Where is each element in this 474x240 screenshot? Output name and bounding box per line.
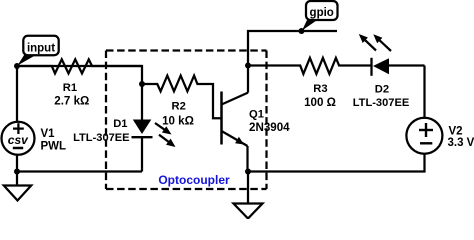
svg-text:2N3904: 2N3904 [249,121,290,134]
svg-text:D1: D1 [113,118,127,130]
svg-text:input: input [27,42,55,54]
resistor R3 [248,58,371,74]
node emitter junction [245,169,251,175]
svg-text:R2: R2 [172,100,186,112]
wire V1 bottom [16,156,18,186]
emission arrow 2 [379,39,392,51]
wire V1 top [16,66,18,122]
svg-text:PWL: PWL [41,141,67,153]
flag input [18,36,59,66]
optocoupler dashed box [106,51,267,190]
svg-text:2.7 kΩ: 2.7 kΩ [54,94,89,107]
node anode junction [139,81,145,87]
node ground junction left [14,169,20,175]
svg-text:R1: R1 [63,82,77,94]
ground left [4,186,31,201]
svg-text:LTL-307EE: LTL-307EE [353,97,410,109]
resistor R2 [142,76,221,119]
wire emitter ground stub [247,172,249,204]
svg-text:V2: V2 [449,126,463,138]
voltage source V2 [406,118,442,154]
node gpio junction [299,28,305,34]
svg-text:D2: D2 [375,83,389,95]
emission arrow 1 [364,39,376,50]
svg-text:Q1: Q1 [249,108,264,120]
svg-text:csv: csv [8,133,29,147]
LED D2 [359,34,425,76]
ground right [234,204,263,219]
wire V2 bottom rail [248,154,425,172]
wire collector to gpio rail [248,31,337,66]
wire D2 to V2 [423,66,425,118]
voltage source V1 [2,122,35,155]
svg-text:10 kΩ: 10 kΩ [162,115,194,128]
flag gpio [302,1,338,31]
svg-text:LTL-307EE: LTL-307EE [73,132,130,144]
LED D1 [132,84,176,172]
svg-text:V1: V1 [41,128,56,140]
svg-text:3.3 V: 3.3 V [448,137,474,149]
node collector junction [245,63,251,69]
node input junction [14,63,20,69]
resistor R1 [17,59,142,73]
svg-text:R3: R3 [313,83,327,95]
wire ground rail [17,170,142,172]
transistor Q1 [222,65,249,172]
emission arrow 1 [155,123,166,130]
emission arrow 2 [159,135,170,143]
svg-text:100 Ω: 100 Ω [304,96,336,109]
svg-text:Optocoupler: Optocoupler [158,173,230,187]
wire input rail [17,66,142,84]
svg-text:gpio: gpio [310,7,334,19]
